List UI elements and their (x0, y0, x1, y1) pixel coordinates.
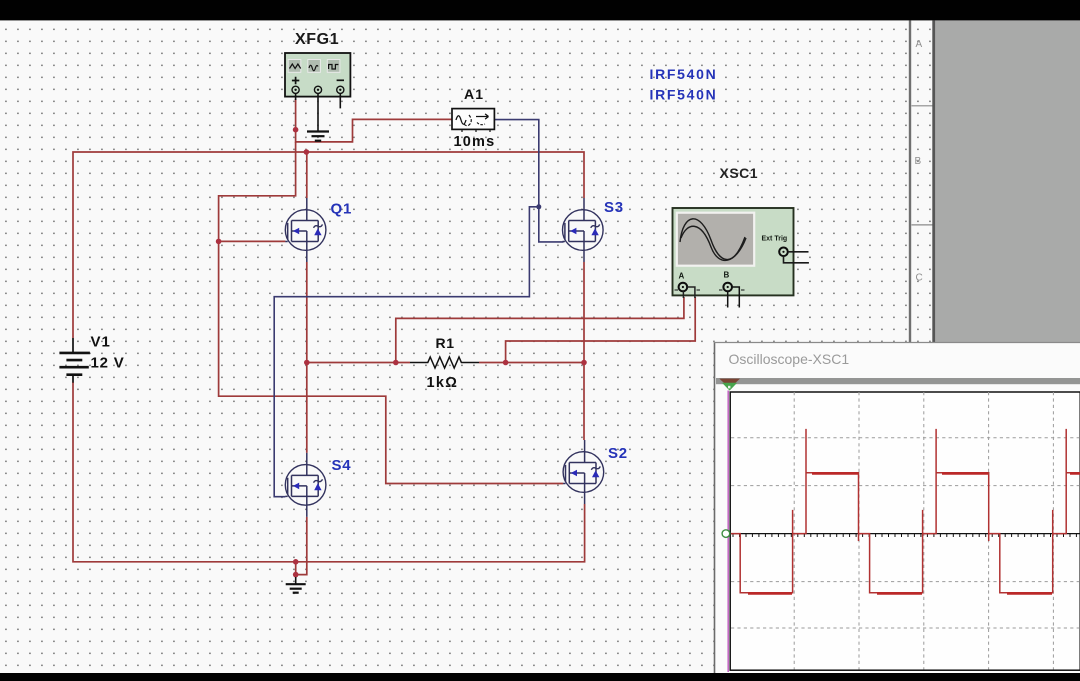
bottom black bar (0, 673, 1080, 681)
junction R1 right / A- tap (503, 360, 509, 366)
plot frame (730, 392, 1080, 670)
magenta cursor line (727, 391, 729, 673)
wire scope A- sense (506, 297, 696, 363)
svg-text:Oscilloscope-XSC1: Oscilloscope-XSC1 (729, 351, 850, 367)
battery V1 (59, 338, 90, 383)
svg-text:XFG1: XFG1 (295, 31, 339, 48)
transistor S2 (563, 440, 604, 504)
svg-text:B: B (724, 271, 730, 280)
svg-text:A: A (916, 39, 923, 50)
junction node A / R1 left (304, 360, 310, 366)
resistor R1 (410, 357, 479, 368)
svg-text:B: B (915, 156, 922, 167)
junction ground stub (293, 572, 299, 578)
scope pin stubs (683, 287, 695, 298)
oscilloscope window Oscilloscope-XSC1 (714, 342, 1080, 673)
trace channel A (731, 429, 1080, 593)
trigger marker triangle (719, 379, 740, 389)
wire R1 right lead to node B (479, 362, 584, 364)
wire scope A+ sense (396, 297, 684, 363)
svg-text:A: A (679, 272, 685, 281)
svg-text:1kΩ: 1kΩ (427, 375, 459, 391)
junction A1 output branch (navy) (536, 204, 541, 209)
wire A1 output branch to S4 gate (navy) (274, 207, 539, 497)
svg-text:Ext Trig: Ext Trig (762, 236, 788, 243)
channel marker circle (722, 530, 730, 538)
junction at XFG+ branch (293, 127, 299, 133)
ground (bottom) (286, 577, 306, 593)
junction ground rail (293, 559, 299, 565)
junction R1 left / A+ tap (393, 360, 399, 366)
transistor Q1 (285, 198, 326, 262)
wire output node B: S3 source to S2 drain (583, 262, 585, 440)
svg-text:10ms: 10ms (454, 134, 496, 150)
oscilloscope XSC1 (673, 208, 809, 308)
ground under XFG1 (307, 132, 329, 141)
function generator XFG1 (285, 53, 350, 132)
svg-text:S4: S4 (332, 457, 352, 474)
svg-text:XSC1: XSC1 (720, 165, 759, 181)
gray canvas outside sheet (935, 20, 1080, 342)
svg-text:S3: S3 (604, 199, 624, 216)
wire ground rail: battery bottom to S2 source (73, 382, 585, 562)
wire XFG1+ to A1 input (296, 99, 452, 142)
svg-text:A1: A1 (464, 86, 484, 102)
svg-text:V1: V1 (91, 333, 111, 350)
wire S4 source jog to ground (296, 517, 307, 575)
sheet border column (910, 20, 934, 342)
transistor S3 (563, 198, 604, 262)
svg-text:C: C (916, 273, 923, 284)
wire output node A: Q1 source to S4 drain (306, 262, 308, 453)
gray band (716, 378, 1080, 384)
svg-text:IRF540N: IRF540N (650, 87, 718, 103)
wire R1 left lead (307, 362, 410, 364)
transistor S4 (285, 453, 326, 517)
wire gate net Q1/S2 (219, 142, 564, 484)
junction gate net at Q1 gate (216, 239, 222, 245)
delay block A1 (452, 109, 494, 132)
wire A1 output to S3 gate (navy) (494, 120, 563, 242)
svg-text:Q1: Q1 (331, 201, 353, 218)
svg-text:S2: S2 (608, 445, 628, 462)
wire V+ rail: battery top to S3 drain (73, 152, 584, 338)
pin stubs (296, 93, 341, 131)
top black bar (0, 0, 1080, 20)
svg-text:12 V: 12 V (91, 355, 125, 372)
svg-text:R1: R1 (436, 335, 455, 351)
grid dashed lines (731, 392, 1080, 670)
svg-text:IRF540N: IRF540N (650, 66, 718, 82)
junction node B / R1 right (581, 360, 587, 366)
junction V+ rail / Q1 drain (304, 149, 310, 155)
axis with ticks (731, 533, 1080, 535)
wire Q1 drain feed (306, 152, 308, 198)
